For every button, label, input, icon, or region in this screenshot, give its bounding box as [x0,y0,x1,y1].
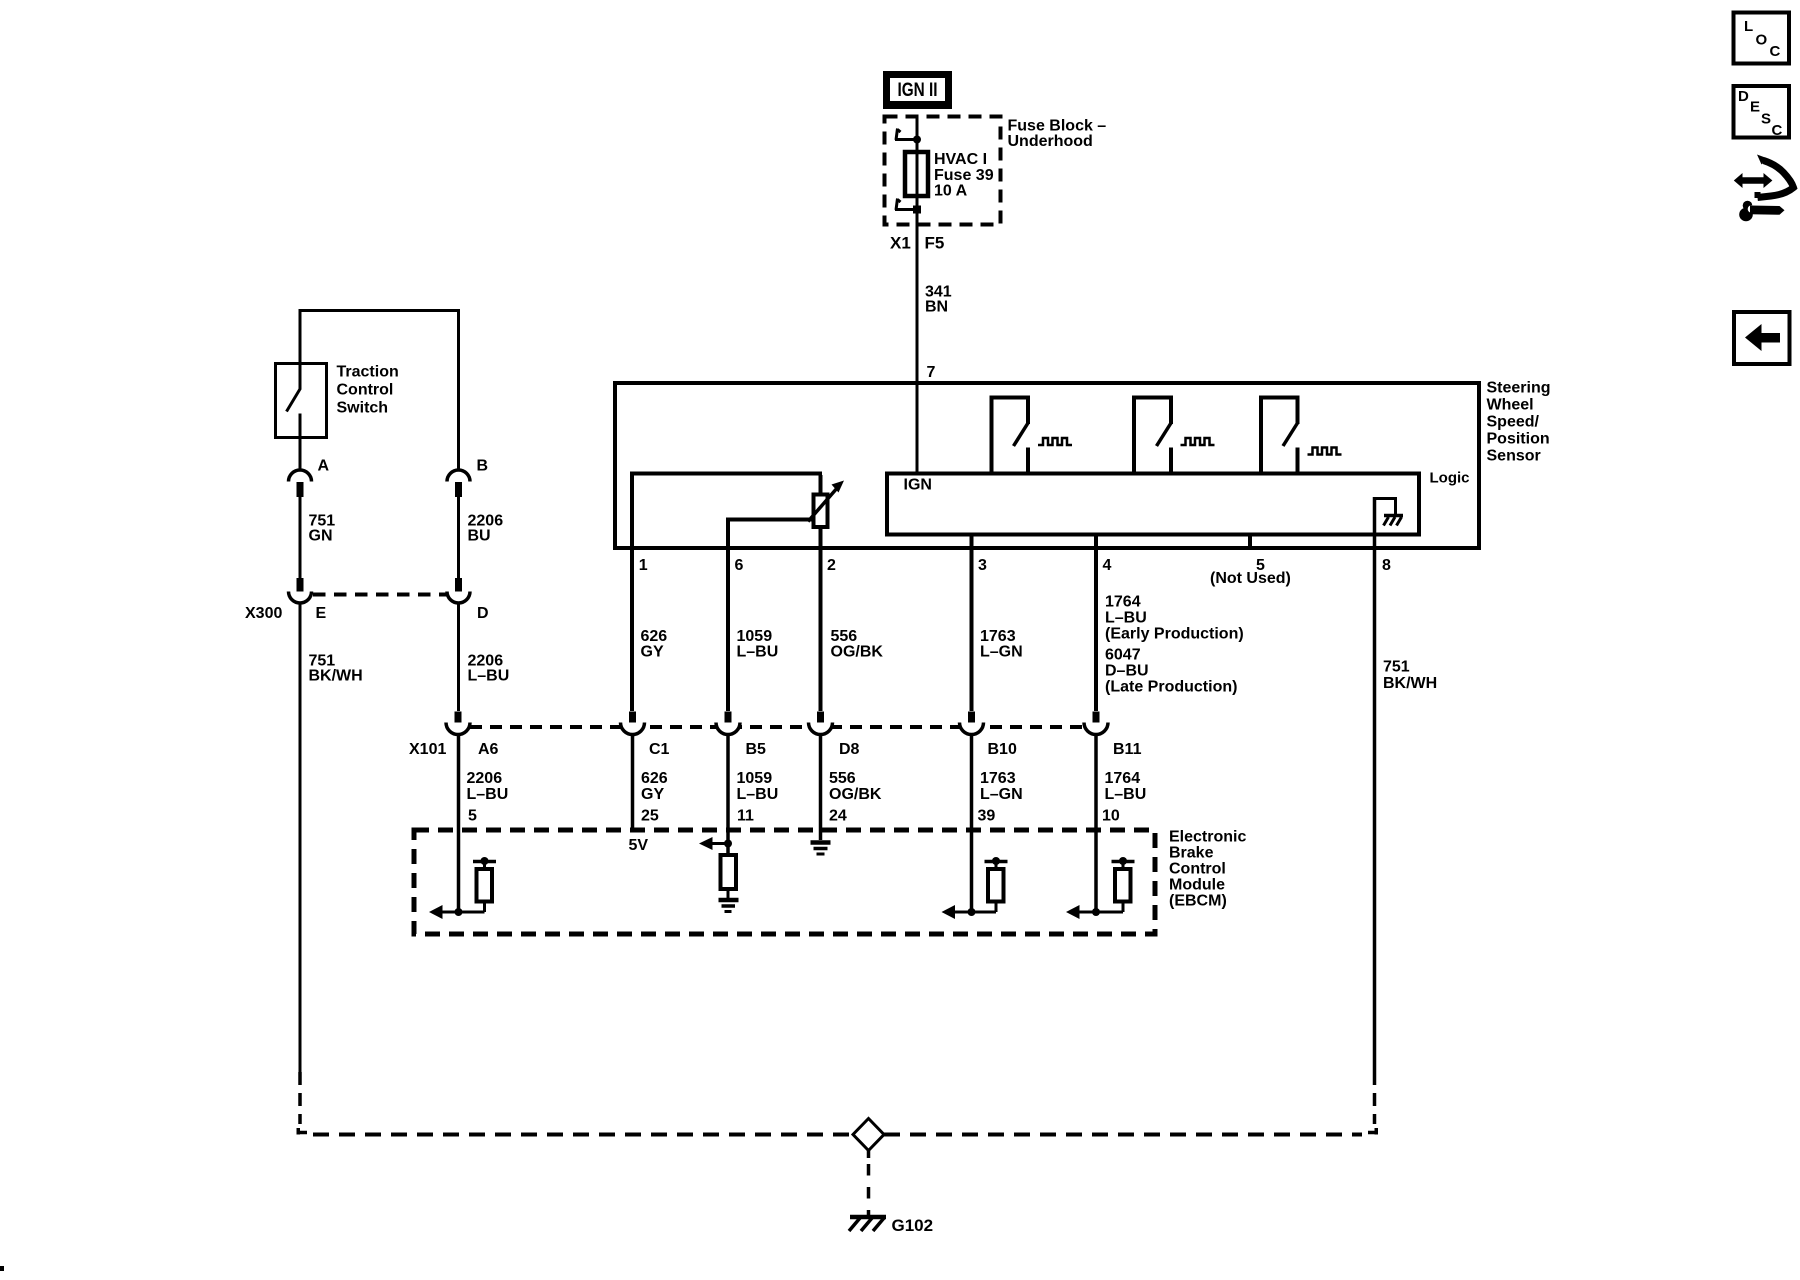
wire 751 GN [300,497,335,578]
svg-text:B5: B5 [746,741,767,758]
svg-text:C1: C1 [649,741,670,758]
svg-text:BK/WH: BK/WH [309,668,363,685]
svg-text:1059: 1059 [737,628,773,645]
svg-text:B11: B11 [1113,741,1142,758]
svg-text:5V: 5V [629,837,649,854]
X300 dashed harness line [313,593,447,597]
connector X101 pin B11 [1084,712,1142,759]
wire pin 8 with internal ground [1373,497,1377,1072]
svg-text:HVAC I: HVAC I [934,151,987,168]
wire C1 to EBCM pin 25 [633,735,668,829]
svg-text:626: 626 [641,770,668,787]
svg-text:24: 24 [829,807,847,824]
EBCM pin 5 pull-up resistor branch [429,828,496,919]
svg-text:IGN II: IGN II [898,80,938,101]
svg-text:25: 25 [641,807,659,824]
hall switch 2 [1134,398,1171,474]
square wave symbol 3 [1308,448,1342,455]
wire pin 1 internal [632,474,822,712]
svg-text:OG/BK: OG/BK [829,786,882,803]
svg-text:A: A [318,458,330,475]
power flag IGN II [883,71,952,109]
svg-text:Sensor: Sensor [1487,448,1541,465]
connector X300 pin D [447,578,489,622]
svg-text:5: 5 [468,807,477,824]
svg-text:Module: Module [1169,877,1225,894]
svg-text:1059: 1059 [737,770,773,787]
connector A [289,458,330,498]
svg-text:7: 7 [927,364,936,381]
svg-text:D8: D8 [839,741,860,758]
wire 751 BK/WH left long [300,603,363,1072]
svg-text:X300: X300 [245,605,282,622]
svg-text:Control: Control [337,382,394,399]
svg-text:Electronic: Electronic [1169,829,1246,846]
wire 341 BN from fuse to sensor pin 7 [917,210,952,476]
wire label 1764 L-BU early production [1105,594,1244,643]
svg-text:B10: B10 [988,741,1017,758]
svg-text:556: 556 [829,770,856,787]
wire B5 to EBCM pin 11 [728,735,778,829]
svg-text:Fuse 39: Fuse 39 [934,167,994,184]
svg-text:1764: 1764 [1105,594,1141,611]
fuse HVAC I Fuse 39 10A [905,151,994,200]
svg-text:626: 626 [641,628,668,645]
svg-text:C: C [1770,43,1781,60]
svg-text:B: B [477,458,489,475]
svg-text:Fuse Block –: Fuse Block – [1008,118,1107,135]
EBCM pin 10 pull-up resistor branch [1066,828,1135,919]
svg-text:X1: X1 [890,233,911,252]
svg-text:GY: GY [641,644,664,661]
page mark dot [0,1266,4,1271]
svg-text:Brake: Brake [1169,845,1214,862]
svg-text:10: 10 [1102,807,1120,824]
svg-text:F5: F5 [925,233,945,252]
svg-text:GY: GY [641,786,664,803]
internal ground in logic box [1375,499,1404,526]
svg-text:Switch: Switch [337,400,389,417]
traction control switch box [276,364,399,438]
svg-text:D–BU: D–BU [1105,663,1149,680]
svg-text:L–GN: L–GN [980,644,1023,661]
svg-text:3: 3 [978,557,987,574]
wire from IGN II to fuse [916,117,919,140]
svg-text:IGN: IGN [904,477,932,494]
svg-text:(Not Used): (Not Used) [1210,570,1291,587]
svg-text:10 A: 10 A [934,183,968,200]
wire through fuse [916,140,919,210]
svg-text:4: 4 [1103,557,1112,574]
steering wheel speed position sensor box [615,380,1551,548]
svg-text:Underhood: Underhood [1008,133,1093,150]
EBCM pin 24 ground branch [811,828,831,854]
icon LOC box [1734,13,1790,64]
svg-text:6: 6 [735,557,744,574]
svg-text:Position: Position [1487,431,1550,448]
svg-text:1764: 1764 [1105,770,1141,787]
fuse holder clip bottom [895,199,921,214]
wire 2206 BU [459,497,504,578]
svg-text:39: 39 [978,807,996,824]
square wave symbol 2 [1181,438,1215,445]
square wave symbol 1 [1038,438,1072,445]
svg-text:E: E [316,605,327,622]
wire pin 2 internal [819,475,823,711]
left wire dashed drop to ground rail [298,1072,302,1124]
svg-text:L: L [1744,18,1753,35]
ground symbol pin 11 [719,900,739,912]
svg-text:BU: BU [468,528,491,545]
svg-text:L–BU: L–BU [737,786,779,803]
svg-text:Logic: Logic [1430,469,1470,486]
svg-text:X101: X101 [409,741,446,758]
svg-text:BN: BN [925,299,948,316]
pin numbers sensor box [639,557,1391,574]
icon pointer hand with arrows [1734,155,1794,222]
splice diamond [853,1119,884,1151]
wire label 751 BK/WH right [1383,659,1437,693]
fuse holder clip top [895,129,921,144]
bottom dashed ground rail left segment [298,1128,307,1135]
connector X101 pin B10 [960,712,1017,759]
svg-text:D: D [1738,88,1749,105]
wire 2206 L-BU to X101 [459,603,510,711]
connector X300 pin E [289,578,327,622]
EBCM pin 39 pull-up resistor branch [942,828,1008,919]
svg-text:L–BU: L–BU [737,644,779,661]
X101 dashed harness line [470,725,1084,729]
ground G102 [849,1216,933,1235]
wire B10 to EBCM pin 39 [972,735,1023,829]
svg-text:L–GN: L–GN [980,786,1023,803]
fuse block label [1008,118,1107,151]
svg-text:BK/WH: BK/WH [1383,675,1437,692]
svg-text:1763: 1763 [980,770,1016,787]
hall switch 1 [992,398,1029,474]
connector X101 pin B5 [716,712,766,759]
potentiometer (position sensor element) [808,481,844,528]
svg-text:(Late Production): (Late Production) [1105,679,1237,696]
wire label 1763 L-GN upper [980,628,1023,661]
svg-text:556: 556 [831,628,858,645]
svg-text:2: 2 [827,557,836,574]
pin 5 stub not used [1248,536,1252,547]
wire D8 to EBCM pin 24 [821,735,882,829]
svg-text:GN: GN [309,528,333,545]
wire label 626 GY upper [641,628,668,661]
svg-text:751: 751 [1383,659,1410,676]
connector X101 pin D8 [809,712,860,759]
connector X101 pin A6 [446,712,499,759]
svg-text:1: 1 [639,557,648,574]
svg-text:S: S [1761,111,1771,128]
svg-text:2206: 2206 [467,770,503,787]
svg-text:L–BU: L–BU [1105,610,1147,627]
svg-text:A6: A6 [478,741,499,758]
svg-text:D: D [477,605,489,622]
svg-text:E: E [1750,99,1760,116]
wire A6 to EBCM pin 5 [459,735,509,829]
right wire dashed drop to ground rail [1373,1072,1377,1124]
logic box [887,474,1419,535]
svg-text:Wheel: Wheel [1487,397,1534,414]
wire pin 3 stub [970,536,974,711]
icon DESC box [1734,86,1790,139]
connector B [447,458,488,498]
svg-text:OG/BK: OG/BK [831,644,884,661]
wire pin 6 internal [728,520,820,712]
wire label 1059 L-BU upper [737,628,779,661]
EBCM pin 11 resistor to ground branch [699,828,736,898]
svg-text:1763: 1763 [980,628,1016,645]
svg-text:L–BU: L–BU [467,786,509,803]
svg-text:G102: G102 [892,1216,934,1235]
svg-text:6047: 6047 [1105,647,1141,664]
svg-text:(Early Production): (Early Production) [1105,626,1244,643]
svg-text:L–BU: L–BU [468,668,510,685]
wire pin 4 stub [1094,536,1098,711]
svg-text:Steering: Steering [1487,380,1551,397]
svg-text:8: 8 [1382,557,1391,574]
traction switch blade [287,362,301,470]
icon back arrow box [1734,312,1790,364]
dashed wire to G102 [867,1151,871,1216]
bottom dashed ground rail right segment [1368,1128,1376,1135]
svg-text:C: C [1772,122,1783,139]
svg-text:Speed/: Speed/ [1487,414,1540,431]
EBCM dashed box [414,829,1246,934]
svg-text:L–BU: L–BU [1105,786,1147,803]
svg-text:11: 11 [737,807,754,824]
svg-text:(EBCM): (EBCM) [1169,893,1227,910]
top wire between switch legs [300,311,459,471]
wire B11 to EBCM pin 10 [1096,735,1146,829]
wire label 6047 D-BU late production [1105,647,1237,696]
hall switch 3 [1261,398,1298,474]
connector X1 pin F5 labels [890,233,944,252]
connector X101 pin C1 [621,712,670,759]
svg-text:O: O [1756,32,1768,49]
svg-text:Control: Control [1169,861,1226,878]
wire label 556 OG/BK upper [831,628,884,661]
svg-text:Traction: Traction [337,364,399,381]
fuse block underhood dashed box [885,117,1001,225]
